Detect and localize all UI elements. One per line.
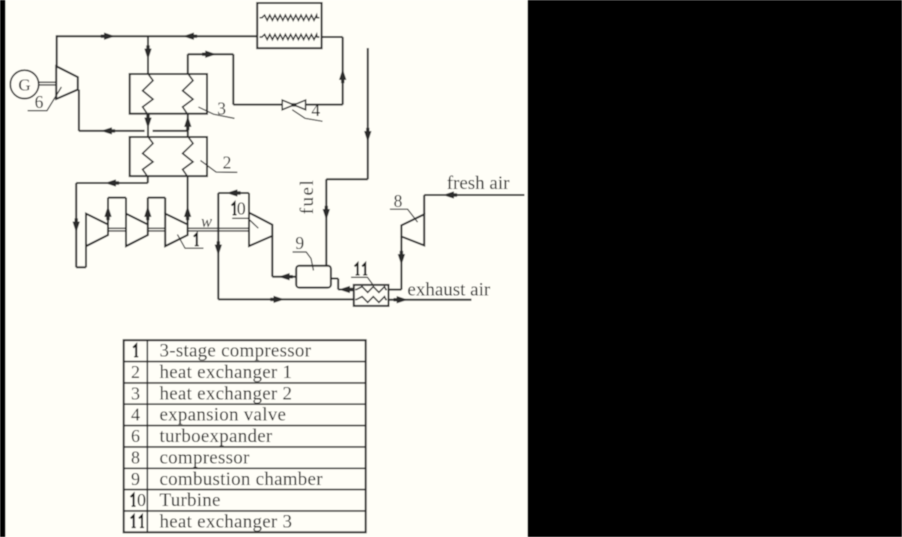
svg-text:3: 3 [131, 383, 140, 403]
svg-text:8: 8 [131, 447, 140, 467]
svg-text:4: 4 [131, 405, 140, 425]
svg-text:4: 4 [311, 100, 320, 120]
svg-text:3-stage compressor: 3-stage compressor [160, 341, 312, 362]
svg-text:9: 9 [295, 233, 304, 253]
svg-text:Turbine: Turbine [160, 490, 221, 511]
svg-text:6: 6 [131, 426, 140, 446]
svg-text:0: 0 [237, 199, 246, 219]
svg-text:2: 2 [131, 362, 140, 382]
svg-text:expansion valve: expansion valve [160, 405, 287, 426]
svg-text:w: w [201, 212, 212, 231]
svg-text:exhaust air: exhaust air [407, 280, 491, 301]
svg-text:fresh air: fresh air [447, 173, 510, 194]
svg-text:compressor: compressor [160, 447, 251, 468]
svg-text:G: G [18, 76, 30, 95]
svg-text:combustion chamber: combustion chamber [160, 469, 324, 490]
svg-text:9: 9 [131, 469, 140, 489]
svg-text:0: 0 [137, 490, 146, 510]
svg-text:6: 6 [35, 92, 44, 112]
svg-text:fuel: fuel [297, 179, 318, 215]
svg-text:heat exchanger 1: heat exchanger 1 [160, 362, 293, 383]
svg-text:3: 3 [217, 99, 226, 119]
svg-text:8: 8 [394, 191, 403, 211]
svg-text:2: 2 [223, 152, 232, 172]
svg-text:heat exchanger 3: heat exchanger 3 [160, 511, 293, 532]
svg-text:heat exchanger 2: heat exchanger 2 [160, 383, 293, 404]
svg-text:turboexpander: turboexpander [160, 426, 273, 447]
